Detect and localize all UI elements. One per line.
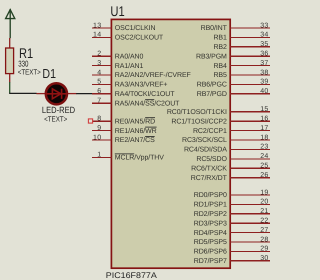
pin 21 RD2/PSP2 [194, 208, 270, 218]
pin 26 RC7/RX/DT [191, 172, 270, 182]
IC U1 PIC16F877A body [111, 19, 230, 268]
no-connect marker pin 8 [88, 119, 92, 123]
svg-text:RA2/AN2/VREF-/CVREF: RA2/AN2/VREF-/CVREF [115, 71, 191, 79]
svg-text:6: 6 [97, 88, 101, 95]
pin 3 RA1/AN1 [92, 60, 143, 70]
pin 36 RB3/PGM [196, 51, 270, 61]
svg-text:3: 3 [97, 60, 101, 67]
svg-text:4: 4 [97, 69, 101, 76]
pin 29 RD6/PSP6 [194, 246, 270, 256]
svg-text:39: 39 [260, 79, 268, 86]
svg-text:7: 7 [97, 98, 101, 105]
svg-text:28: 28 [260, 236, 268, 243]
svg-text:RD0/PSP0: RD0/PSP0 [194, 191, 227, 199]
pin 33 RB0/INT [201, 22, 270, 32]
wire D1 cathode to RA4 [76, 93, 93, 95]
svg-text:RB7/PGD: RB7/PGD [197, 90, 227, 98]
svg-text:15: 15 [260, 106, 268, 113]
svg-text:17: 17 [260, 125, 268, 132]
pin 15 RC0/T1OSO/T1CKI [167, 106, 270, 116]
svg-text:5: 5 [97, 79, 101, 86]
pin 17 RC2/CCP1 [193, 125, 270, 135]
pin 23 RC4/SDI/SDA [184, 144, 270, 154]
svg-text:RC7/RX/DT: RC7/RX/DT [191, 174, 228, 182]
svg-text:RD2/PSP2: RD2/PSP2 [194, 210, 227, 218]
pin 28 RD5/PSP5 [194, 236, 270, 246]
svg-text:36: 36 [260, 51, 268, 58]
power symbol [6, 9, 15, 38]
svg-text:RA1/AN1: RA1/AN1 [115, 62, 144, 70]
pin 40 RB7/PGD [197, 88, 270, 98]
svg-text:RC5/SDO: RC5/SDO [196, 155, 227, 163]
svg-text:RD7/PSP7: RD7/PSP7 [194, 257, 227, 265]
svg-text:23: 23 [260, 144, 268, 151]
svg-text:RD1/PSP1: RD1/PSP1 [194, 201, 227, 209]
svg-text:10: 10 [93, 134, 101, 141]
svg-text:21: 21 [260, 208, 268, 215]
pin 37 RB4 [213, 60, 270, 70]
svg-text:35: 35 [260, 41, 268, 48]
pin 22 RD3/PSP3 [194, 218, 270, 228]
svg-text:<TEXT>: <TEXT> [44, 114, 67, 123]
svg-text:16: 16 [260, 116, 268, 123]
svg-text:14: 14 [93, 32, 101, 39]
pin 6 RA4/T0CKI/C1OUT [92, 88, 175, 98]
svg-text:25: 25 [260, 163, 268, 170]
wire R1 bottom to corner [9, 82, 11, 93]
svg-text:RC0/T1OSO/T1CKI: RC0/T1OSO/T1CKI [167, 108, 227, 116]
svg-text:13: 13 [93, 22, 101, 29]
wire corner to D1 anode [9, 92, 36, 94]
svg-text:RC2/CCP1: RC2/CCP1 [193, 127, 227, 135]
pin 19 RD0/PSP0 [194, 189, 270, 199]
svg-text:RB6/PGC: RB6/PGC [197, 81, 227, 89]
svg-text:19: 19 [260, 189, 268, 196]
pin 24 RC5/SDO [196, 153, 270, 163]
svg-text:RC1/T1OSI/CCP2: RC1/T1OSI/CCP2 [171, 117, 227, 125]
svg-text:RD4/PSP4: RD4/PSP4 [194, 229, 227, 237]
pin 8 RE0/AN5/RD [92, 116, 155, 126]
pin 34 RB1 [213, 32, 270, 42]
svg-text:29: 29 [260, 246, 268, 253]
svg-text:RA0/AN0: RA0/AN0 [115, 52, 144, 60]
svg-text:9: 9 [97, 125, 101, 132]
pin 35 RB2 [213, 41, 270, 51]
svg-text:RD3/PSP3: RD3/PSP3 [194, 219, 227, 227]
pin 30 RD7/PSP7 [194, 255, 270, 265]
svg-text:<TEXT>: <TEXT> [18, 68, 41, 77]
svg-text:RE1/AN6/WR: RE1/AN6/WR [115, 127, 157, 135]
pin 9 RE1/AN6/WR [92, 125, 157, 135]
svg-text:OSC2/CLKOUT: OSC2/CLKOUT [115, 34, 164, 42]
pin 27 RD4/PSP4 [194, 227, 270, 237]
svg-text:40: 40 [260, 88, 268, 95]
svg-text:RC3/SCK/SCL: RC3/SCK/SCL [182, 136, 227, 144]
svg-text:38: 38 [260, 69, 268, 76]
svg-text:RA5/AN4/SS/C2OUT: RA5/AN4/SS/C2OUT [115, 99, 180, 107]
svg-text:24: 24 [260, 153, 268, 160]
svg-text:D1: D1 [42, 66, 56, 81]
pin 7 RA5/AN4/SS/C2OUT [92, 98, 180, 108]
svg-text:PIC16F877A: PIC16F877A [106, 271, 158, 280]
svg-text:8: 8 [97, 116, 101, 123]
svg-text:26: 26 [260, 172, 268, 179]
svg-text:RC4/SDI/SDA: RC4/SDI/SDA [184, 146, 227, 154]
svg-text:MCLR/Vpp/THV: MCLR/Vpp/THV [115, 154, 164, 162]
pin 14 OSC2/CLKOUT [92, 32, 164, 42]
svg-text:2: 2 [97, 51, 101, 58]
svg-text:RB4: RB4 [213, 63, 227, 70]
svg-text:OSC1/CLKIN: OSC1/CLKIN [115, 24, 156, 32]
svg-text:RA4/T0CKI/C1OUT: RA4/T0CKI/C1OUT [115, 90, 175, 98]
svg-text:RC6/TX/CK: RC6/TX/CK [191, 165, 227, 173]
pin 39 RB6/PGC [197, 79, 270, 89]
svg-text:RB0/INT: RB0/INT [201, 24, 228, 32]
svg-text:27: 27 [260, 227, 268, 234]
svg-text:33: 33 [260, 22, 268, 29]
pin 16 RC1/T1OSI/CCP2 [171, 116, 270, 126]
resistor R1 [6, 38, 14, 82]
svg-text:34: 34 [260, 32, 268, 39]
pin 5 RA3/AN3/VREF+ [92, 79, 167, 89]
svg-text:RB3/PGM: RB3/PGM [196, 52, 227, 60]
pin 25 RC6/TX/CK [191, 163, 270, 173]
svg-text:18: 18 [260, 134, 268, 141]
svg-text:RE2/AN7/CS: RE2/AN7/CS [115, 136, 155, 144]
pin 13 OSC1/CLKIN [92, 22, 155, 32]
svg-text:RB5: RB5 [213, 72, 227, 79]
svg-text:20: 20 [260, 199, 268, 206]
pin 20 RD1/PSP1 [194, 199, 270, 209]
pin 4 RA2/AN2/VREF-/CVREF [92, 69, 191, 79]
svg-text:37: 37 [260, 60, 268, 67]
svg-text:22: 22 [260, 218, 268, 225]
svg-text:RD6/PSP6: RD6/PSP6 [194, 248, 227, 256]
svg-text:RA3/AN3/VREF+: RA3/AN3/VREF+ [115, 81, 168, 89]
svg-text:30: 30 [260, 255, 268, 262]
svg-text:1: 1 [97, 152, 101, 159]
svg-text:RD5/PSP5: RD5/PSP5 [194, 238, 227, 246]
pin 1 MCLR/Vpp/THV [92, 152, 164, 162]
pin 10 RE2/AN7/CS [92, 134, 155, 144]
svg-text:RE0/AN5/RD: RE0/AN5/RD [115, 117, 155, 125]
pin 2 RA0/AN0 [92, 51, 143, 61]
pin 38 RB5 [213, 69, 270, 79]
svg-text:U1: U1 [110, 3, 124, 19]
LED D1 [36, 83, 76, 104]
pin 18 RC3/SCK/SCL [182, 134, 270, 144]
svg-text:RB2: RB2 [213, 44, 227, 51]
svg-text:RB1: RB1 [213, 35, 227, 42]
